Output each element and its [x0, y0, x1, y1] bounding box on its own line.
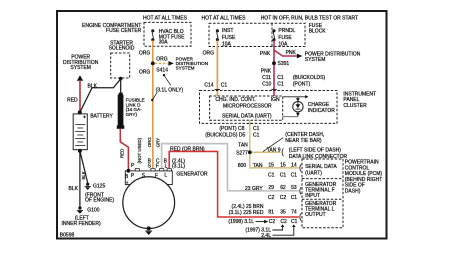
- svg-text:(3.1L) 225 RED: (3.1L) 225 RED: [229, 210, 264, 216]
- svg-text:DASH): DASH): [345, 189, 361, 195]
- svg-text:PNK: PNK: [261, 69, 272, 75]
- junction generator P terminal (red wire): [126, 169, 130, 173]
- svg-text:HOT AT ALL TIMES: HOT AT ALL TIMES: [202, 16, 247, 22]
- svg-text:GRY: GRY: [155, 138, 160, 148]
- fuse PRNDL FUSE 10A: [272, 28, 295, 47]
- svg-text:C2: C2: [280, 195, 287, 201]
- wire RED (OR BRN) generator L to PCM and cluster: [169, 151, 299, 217]
- svg-text:SYSTEM: SYSTEM: [70, 65, 91, 71]
- svg-text:800: 800: [238, 163, 247, 169]
- instrument panel cluster box: [200, 91, 338, 124]
- svg-text:C1: C1: [221, 82, 228, 88]
- svg-text:BLK: BLK: [69, 186, 79, 192]
- svg-text:TAN: TAN: [253, 163, 263, 169]
- connector tick below cluster (serial data out): [247, 122, 252, 124]
- svg-text:BLOCK: BLOCK: [309, 29, 327, 35]
- ground G125: [85, 183, 106, 190]
- wire BLK battery to solenoid: [80, 79, 121, 113]
- svg-text:10A: 10A: [222, 41, 232, 47]
- wire TAN serial data to PCM: [250, 120, 299, 168]
- svg-text:GENERATOR: GENERATOR: [176, 172, 208, 178]
- wire PNK branch to power distribution: [274, 50, 297, 56]
- arrow up to power distribution (red wire): [77, 75, 83, 81]
- svg-text:C1: C1: [291, 195, 298, 201]
- engine compartment fuse center box: [144, 22, 191, 46]
- svg-text:FUSE CENTER: FUSE CENTER: [106, 28, 142, 34]
- splice S414: [151, 62, 155, 66]
- svg-text:(LEFT SIDE OF DASH): (LEFT SIDE OF DASH): [289, 148, 341, 154]
- wire GRY generator F to PCM: [162, 144, 299, 191]
- microprocessor box: [210, 96, 283, 120]
- svg-text:TAN: TAN: [238, 142, 248, 148]
- svg-text:(3.1L ONLY): (3.1L ONLY): [156, 87, 184, 93]
- svg-text:15: 15: [268, 163, 274, 169]
- svg-text:BATTERY: BATTERY: [90, 113, 113, 119]
- svg-text:F: F: [155, 173, 158, 179]
- arrow to power distribution system (pnk): [297, 54, 303, 59]
- note (3.1L ONLY) with leader lines: [151, 74, 183, 101]
- fuse HVAC BLO MOT FUSE 30A: [151, 29, 185, 46]
- svg-text:SYSTEM: SYSTEM: [176, 66, 195, 71]
- splice S277: [248, 150, 252, 154]
- wire RED battery to power distribution: [79, 81, 81, 113]
- fuse INST FUSE 10A: [216, 28, 236, 47]
- svg-text:OUTPUT: OUTPUT: [305, 212, 326, 218]
- svg-text:C1: C1: [280, 172, 287, 178]
- svg-text:(PONT): (PONT): [293, 81, 311, 87]
- svg-text:C1: C1: [253, 133, 260, 139]
- generator connector box: [125, 168, 172, 184]
- svg-text:S391: S391: [278, 61, 290, 67]
- svg-text:+: +: [126, 180, 129, 186]
- svg-text:RED: RED: [119, 149, 124, 158]
- svg-text:S277: S277: [236, 150, 248, 156]
- svg-text:RED (OR BRN): RED (OR BRN): [170, 146, 205, 152]
- svg-text:62: 62: [280, 185, 286, 191]
- svg-text:NEAR TIE BAR): NEAR TIE BAR): [285, 138, 322, 144]
- svg-text:2.4L: 2.4L: [261, 233, 271, 239]
- svg-text:29: 29: [268, 185, 274, 191]
- wire solenoid to fusible link: [120, 79, 122, 94]
- wire ORG from INST fuse to cluster: [216, 41, 218, 97]
- charge indicator lamp: [283, 95, 309, 117]
- wire ORG dashed branch to power distribution: [155, 62, 168, 64]
- wire BLK battery to G125: [80, 151, 88, 183]
- svg-text:30A: 30A: [159, 40, 169, 46]
- svg-text:BLK: BLK: [88, 83, 98, 89]
- PCM box: [302, 159, 343, 228]
- ground G100: [77, 206, 100, 213]
- svg-text:C2: C2: [269, 219, 276, 225]
- svg-text:SOLENOID: SOLENOID: [109, 46, 135, 52]
- svg-text:(3.1L): (3.1L): [172, 164, 185, 170]
- fusible link D: [117, 93, 145, 129]
- svg-text:C2: C2: [268, 195, 275, 201]
- fuse block box (INST + PRNDL): [209, 23, 305, 46]
- svg-text:IGN: IGN: [271, 97, 280, 103]
- svg-text:GRY): GRY): [126, 112, 138, 117]
- svg-text:74: 74: [291, 210, 297, 216]
- border frame: [57, 11, 387, 239]
- junction battery negative: [78, 149, 82, 153]
- svg-text:PRNDL: PRNDL: [278, 28, 295, 34]
- starter solenoid box: [111, 53, 130, 78]
- svg-text:L: L: [164, 172, 167, 178]
- svg-text:SYSTEM: SYSTEM: [305, 57, 326, 63]
- svg-text:FUSE: FUSE: [222, 35, 236, 41]
- svg-text:G125: G125: [93, 184, 105, 190]
- svg-text:(UART): (UART): [305, 170, 322, 176]
- svg-text:14: 14: [291, 163, 297, 169]
- svg-text:INST: INST: [222, 28, 233, 34]
- svg-text:(1998) 3.1L: (1998) 3.1L: [228, 219, 254, 225]
- svg-text:ORG: ORG: [203, 51, 215, 57]
- svg-text:C1: C1: [277, 75, 284, 81]
- svg-text:(BUICKOLDS): (BUICKOLDS): [293, 75, 326, 81]
- svg-text:C1: C1: [253, 126, 260, 132]
- terminal letters inside box: [125, 172, 167, 186]
- svg-text:23 GRY: 23 GRY: [245, 186, 263, 192]
- svg-text:G100: G100: [87, 207, 99, 213]
- connector tick on PNK wire: [271, 88, 276, 90]
- svg-text:C2: C2: [280, 219, 287, 225]
- junction at solenoid: [119, 77, 123, 81]
- svg-text:RED: RED: [67, 98, 78, 104]
- battery: [73, 110, 87, 149]
- svg-text:SERIAL DATA (UART): SERIAL DATA (UART): [222, 113, 272, 119]
- arrow to power distribution system (org): [168, 61, 173, 66]
- wire BLK battery to G100: [79, 151, 81, 208]
- svg-text:B0598: B0598: [60, 232, 75, 238]
- svg-text:C1: C1: [291, 219, 298, 225]
- svg-text:FUSE: FUSE: [278, 35, 292, 41]
- svg-text:PNK: PNK: [286, 50, 297, 56]
- svg-text:81: 81: [268, 210, 274, 216]
- PCM connector brackets: [300, 164, 301, 171]
- svg-text:S414: S414: [156, 68, 168, 74]
- svg-text:ORG: ORG: [139, 70, 151, 76]
- wire RED fusible link to generator P: [120, 129, 128, 171]
- svg-text:(BUICKOLDS) D5: (BUICKOLDS) D5: [205, 133, 245, 139]
- svg-text:C1: C1: [291, 172, 298, 178]
- svg-text:INPUT: INPUT: [305, 193, 320, 199]
- svg-text:CHG. IND. CONT.: CHG. IND. CONT.: [215, 97, 255, 103]
- svg-text:(PONT) C8: (PONT) C8: [219, 126, 244, 132]
- svg-text:ORG: ORG: [139, 51, 151, 57]
- connector bracket at data link: [282, 149, 283, 157]
- svg-text:C14: C14: [204, 82, 213, 88]
- svg-text:(NOT USED): (NOT USED): [137, 137, 142, 163]
- generator ground: [145, 226, 152, 235]
- svg-text:HOT IN OFF, RUN, BULB TEST OR: HOT IN OFF, RUN, BULB TEST OR START: [261, 16, 358, 22]
- svg-text:10A: 10A: [278, 41, 288, 47]
- svg-text:TAN 9: TAN 9: [267, 147, 281, 153]
- wire PNK from PRNDL fuse to cluster: [273, 41, 275, 97]
- svg-text:35: 35: [280, 210, 286, 216]
- svg-text:ORG: ORG: [156, 56, 168, 62]
- svg-text:C1: C1: [277, 81, 284, 87]
- svg-text:F: F: [156, 164, 159, 170]
- leader to (CENTER DASH, NEAR TIE BAR): [263, 138, 283, 152]
- svg-text:HOT AT ALL TIMES: HOT AT ALL TIMES: [143, 16, 188, 22]
- svg-text:DATA LINK CONNECTOR: DATA LINK CONNECTOR: [289, 154, 348, 160]
- svg-text:53: 53: [291, 185, 297, 191]
- generator body: [123, 177, 175, 229]
- svg-text:C1: C1: [268, 172, 275, 178]
- wire ORG from HVAC fuse to generator terminal S: [152, 41, 154, 169]
- svg-text:15: 15: [280, 163, 286, 169]
- wire TAN branch to data link connector: [250, 151, 281, 153]
- svg-text:MICROPROCESSOR: MICROPROCESSOR: [223, 104, 272, 110]
- svg-text:C11: C11: [262, 75, 271, 81]
- svg-text:CLUSTER: CLUSTER: [343, 103, 367, 109]
- svg-text:SERIAL DATA: SERIAL DATA: [305, 164, 337, 170]
- svg-text:INNER FENDER): INNER FENDER): [62, 221, 102, 227]
- svg-text:OF ENGINE): OF ENGINE): [85, 198, 115, 204]
- svg-text:ORG: ORG: [147, 137, 152, 148]
- svg-text:C10: C10: [262, 81, 271, 87]
- connector C14/C1 tick: [215, 88, 220, 90]
- svg-text:PNK: PNK: [260, 51, 271, 57]
- splice S391: [272, 61, 276, 65]
- svg-text:INDICATOR: INDICATOR: [308, 108, 335, 114]
